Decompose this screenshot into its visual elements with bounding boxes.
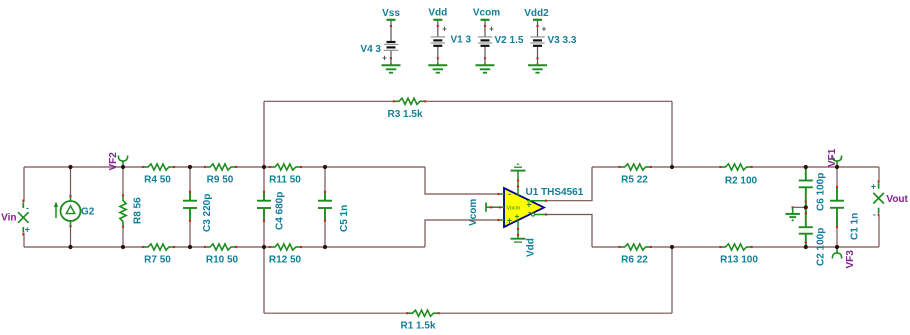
source V4 battery [384, 20, 398, 63]
wire left input column [23, 167, 25, 247]
label VF3 [845, 250, 856, 269]
wire bottom rail left [24, 246, 142, 248]
op-amp U1 [486, 188, 548, 227]
wire feedback left down [263, 247, 265, 313]
wire R8 bottom [122, 228, 124, 247]
label R5 [621, 175, 648, 186]
capacitor C5 [318, 191, 332, 222]
svg-text:+: + [382, 54, 387, 63]
svg-text:Vdd: Vdd [428, 8, 447, 19]
wire C5 bottom [324, 221, 326, 247]
svg-text:Vout: Vout [886, 194, 908, 205]
probe VF1 [832, 156, 841, 168]
resistor R10 [204, 244, 238, 250]
svg-text:C3 220p: C3 220p [202, 194, 213, 232]
U1 out- mark [528, 207, 531, 217]
label R12 [269, 255, 302, 266]
svg-text:C5 1n: C5 1n [339, 205, 350, 232]
svg-text:C2 100p: C2 100p [816, 228, 827, 266]
svg-text:V4 3: V4 3 [360, 44, 381, 55]
label Vdd top [428, 8, 447, 19]
svg-text:C1 1n: C1 1n [850, 213, 861, 240]
wire opamp in+ step [425, 220, 497, 247]
label Vout [886, 194, 908, 205]
junction node 8 [188, 245, 192, 249]
svg-text:R4 50: R4 50 [144, 175, 171, 186]
resistor R1 [406, 310, 440, 316]
label C3 [202, 194, 213, 232]
svg-text:+: + [542, 25, 547, 34]
svg-text:Vcom: Vcom [473, 8, 500, 19]
junction node 17 [804, 205, 808, 209]
U1 in- mark [508, 189, 511, 199]
svg-text:R1 1.5k: R1 1.5k [400, 320, 435, 331]
svg-text:V1 3: V1 3 [451, 35, 472, 46]
junction node 2 [121, 165, 125, 169]
label Vss [382, 8, 400, 19]
svg-text:R3 1.5k: R3 1.5k [387, 109, 422, 120]
label Vdd2 top [524, 8, 549, 19]
label Vin [1, 212, 16, 223]
wire top right rail to R5 [592, 166, 618, 168]
label R10 [206, 255, 239, 266]
wire feedback top left [264, 100, 393, 102]
label V1 value [451, 35, 472, 46]
wire output column [878, 167, 880, 247]
wire R8 top [122, 167, 124, 194]
label R6 [621, 255, 648, 266]
V1 plus mark [442, 25, 447, 34]
wire top right rail R5-R2 [652, 166, 719, 168]
resistor R9 [204, 164, 238, 170]
source V2 battery [478, 20, 492, 63]
wire bottom rail R7-R10 [175, 246, 203, 248]
wire top right rail R2 on [753, 166, 879, 168]
probe VF3 [832, 247, 841, 259]
resistor R7 [142, 244, 176, 250]
U1 negative supply pin Vss rail symbol [511, 164, 526, 195]
svg-text:+: + [507, 216, 512, 226]
resistor R6 [618, 244, 652, 250]
label C1 [850, 213, 861, 240]
label R13 [720, 255, 758, 266]
junction node 5 [323, 165, 327, 169]
label G2 [81, 207, 95, 218]
svg-text:C4 680p: C4 680p [275, 192, 286, 230]
svg-text:R9 50: R9 50 [207, 175, 234, 186]
label U1 [526, 187, 584, 198]
Vout minus mark [873, 210, 876, 220]
Vout plus mark [871, 182, 876, 192]
wire feedback right down to rail [671, 101, 673, 167]
svg-text:VF1: VF1 [827, 148, 838, 167]
junction node 6 [68, 245, 72, 249]
svg-text:R11 50: R11 50 [269, 175, 301, 186]
U1 in+ mark [507, 216, 512, 226]
wire opamp out+ step [547, 167, 592, 201]
wire bottom right rail R13 on [753, 246, 879, 248]
junction node 11 [670, 165, 674, 169]
junction node 3 [188, 165, 192, 169]
svg-text:VF3: VF3 [845, 250, 856, 269]
capacitor C4 [257, 191, 271, 222]
capacitor C2 [799, 209, 813, 247]
label R2 [725, 176, 758, 187]
svg-text:-: - [873, 210, 876, 220]
label VF2 [108, 152, 119, 171]
label V2 value [495, 35, 524, 46]
svg-text:R10 50: R10 50 [206, 255, 239, 266]
label VF1 [827, 148, 838, 167]
label Vcom jumper [468, 199, 479, 226]
svg-text:R12 50: R12 50 [269, 255, 302, 266]
junction node 4 [262, 165, 266, 169]
svg-text:R13 100: R13 100 [720, 255, 758, 266]
ground under V2 [476, 63, 495, 73]
port Vout [873, 180, 884, 216]
source V3 battery [530, 20, 544, 63]
U1 positive supply pin Vdd rail symbol [511, 220, 526, 242]
label V4 value [360, 44, 381, 55]
svg-text:+: + [871, 182, 876, 192]
wire opamp out- step [547, 215, 592, 248]
svg-text:R5 22: R5 22 [621, 175, 648, 186]
svg-text:V2 1.5: V2 1.5 [495, 35, 524, 46]
V2 plus mark [489, 25, 494, 34]
svg-text:-: - [528, 207, 531, 217]
svg-text:+: + [25, 225, 30, 235]
capacitor C3 [183, 191, 197, 222]
wire C4 top [263, 167, 265, 192]
svg-text:Vss: Vss [382, 8, 400, 19]
wire feedback left up [263, 101, 265, 167]
probe VF2 [118, 156, 127, 168]
label R7 [144, 255, 171, 266]
resistor R12 [268, 244, 302, 250]
source G2 [54, 195, 81, 227]
ground under V1 [428, 63, 447, 73]
svg-text:Vcom: Vcom [468, 199, 479, 226]
wire C6 C2 column maroon [836, 167, 838, 247]
ground mid right [786, 207, 800, 220]
capacitor C6 [799, 167, 813, 206]
label R11 [269, 175, 301, 186]
wire top rail R11 to step [302, 166, 425, 168]
source V1 battery [431, 20, 445, 63]
resistor R11 [268, 164, 302, 170]
junction node 10 [323, 245, 327, 249]
wire feedback right up from rail [671, 247, 673, 313]
wire bottom right rail R6-R13 [652, 246, 719, 248]
resistor R8 [120, 194, 126, 228]
svg-text:-: - [508, 189, 511, 199]
svg-text:VF2: VF2 [108, 152, 119, 171]
U1 vplus mark [515, 212, 520, 221]
ground under V4 [382, 63, 401, 73]
svg-text:+: + [515, 212, 520, 221]
wire bottom rail R10-R12 [237, 246, 268, 248]
wire C4 bottom [263, 221, 265, 247]
port Vin [18, 200, 29, 236]
label R4 [144, 175, 171, 186]
junction node 9 [262, 245, 266, 249]
wire top rail R4-R9 [175, 166, 203, 168]
svg-text:+: + [442, 25, 447, 34]
label C4 [275, 192, 286, 230]
wire C5 top [324, 167, 326, 192]
label V3 value [548, 35, 577, 46]
svg-text:V3 3.3: V3 3.3 [548, 35, 577, 46]
wire feedback bottom left [264, 312, 406, 314]
resistor R2 [719, 164, 753, 170]
V4 plus mark [382, 54, 387, 63]
svg-text:Vin: Vin [1, 212, 16, 223]
U1 out+ mark [526, 200, 531, 210]
svg-text:C6 100p: C6 100p [816, 173, 827, 211]
label R3 [387, 109, 422, 120]
label R9 [207, 175, 234, 186]
resistor R13 [719, 244, 753, 250]
wire bottom rail R12 to step [302, 246, 425, 248]
svg-text:R7 50: R7 50 [144, 255, 171, 266]
label C2 [816, 228, 827, 266]
wire top rail left [24, 166, 142, 168]
label C5 [339, 205, 350, 232]
V3 plus mark [542, 25, 547, 34]
resistor R3 [393, 98, 427, 104]
junction node 13 [804, 165, 808, 169]
label R8 [133, 197, 144, 224]
svg-text:Vocm: Vocm [507, 206, 521, 212]
resistor R5 [618, 164, 652, 170]
wire C3 top [189, 167, 191, 192]
junction node 14 [835, 165, 839, 169]
label Vdd jumper [526, 238, 537, 257]
wire G2 top [70, 167, 72, 196]
label C6 [816, 173, 827, 211]
junction node 1 [68, 165, 72, 169]
svg-text:U1 THS4561: U1 THS4561 [526, 187, 584, 198]
junction node 12 [670, 245, 674, 249]
capacitor C1 [830, 186, 844, 228]
junction node 16 [835, 245, 839, 249]
svg-text:Vdd: Vdd [526, 238, 537, 257]
svg-text:+: + [489, 25, 494, 34]
label R1 [400, 320, 435, 331]
wire top rail R9-R11 [237, 166, 268, 168]
wire C3 bottom [189, 221, 191, 247]
svg-text:R8 56: R8 56 [133, 197, 144, 224]
svg-text:G2: G2 [81, 207, 95, 218]
U1 Vocm text [507, 206, 521, 212]
ground under V3 [528, 63, 547, 73]
wire mid ground stub [792, 206, 806, 208]
junction node 7 [121, 245, 125, 249]
svg-text:R2 100: R2 100 [725, 176, 758, 187]
Vin minus mark [26, 203, 29, 213]
wire feedback bottom right [440, 312, 672, 314]
wire G2 bottom [70, 226, 72, 247]
wire opamp in- step [425, 167, 497, 194]
wire feedback top right [426, 100, 672, 102]
svg-text:-: - [26, 203, 29, 213]
Vin plus mark [25, 225, 30, 235]
resistor R4 [142, 164, 176, 170]
junction node 15 [804, 245, 808, 249]
svg-text:R6 22: R6 22 [621, 255, 648, 266]
svg-text:Vdd2: Vdd2 [524, 8, 549, 19]
label Vcom top [473, 8, 500, 19]
wire bottom right rail to R6 [592, 246, 618, 248]
